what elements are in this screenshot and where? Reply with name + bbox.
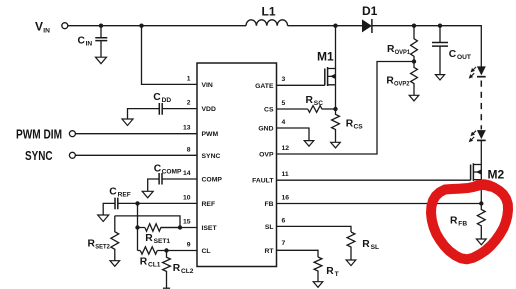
svg-text:VDD: VDD (202, 106, 216, 113)
node junction CS / M1 source (333, 107, 337, 111)
svg-text:1: 1 (187, 75, 191, 82)
wire LED D3 to M2 drain (480, 140, 482, 164)
svg-text:15: 15 (183, 219, 191, 226)
svg-text:14: 14 (183, 170, 191, 177)
ground RSET2 (110, 261, 120, 267)
resistor RSET1 (145, 224, 180, 245)
svg-text:COMP: COMP (202, 177, 223, 184)
LED D2 top (469, 66, 486, 78)
wire pin5 CS left segment (277, 108, 308, 110)
svg-text:OVP1: OVP1 (395, 49, 411, 56)
svg-text:OVP: OVP (259, 152, 274, 159)
svg-text:11: 11 (282, 171, 289, 178)
svg-text:FB: FB (264, 201, 273, 208)
wire pin7 RT (277, 250, 319, 257)
svg-text:5: 5 (282, 100, 286, 107)
resistor ROVP2 (386, 62, 417, 96)
capacitor COUT (432, 26, 471, 75)
resistor RSL (347, 232, 379, 260)
node PWM DIM input terminal (16, 126, 75, 141)
svg-text:R: R (173, 263, 181, 274)
wire pin2 VDD segment (162, 108, 197, 110)
svg-text:D1: D1 (362, 4, 378, 18)
svg-text:IN: IN (86, 41, 93, 48)
svg-text:12: 12 (282, 145, 290, 152)
capacitor CCOMP (148, 164, 182, 192)
diode D1 (362, 4, 378, 33)
resistor RCS (332, 109, 364, 142)
svg-text:SET1: SET1 (154, 238, 171, 245)
transistor M2 (471, 163, 505, 181)
wire pin9 CL segments (138, 250, 198, 252)
wire pin11 FAULT to M2 gate (277, 179, 471, 181)
wire pin14 COMP segment (162, 178, 197, 180)
wire pin10 REF segment (118, 202, 197, 204)
svg-text:RT: RT (264, 248, 274, 255)
ground RFB (476, 239, 486, 245)
svg-text:PWM: PWM (202, 131, 219, 138)
svg-text:4: 4 (282, 119, 286, 126)
svg-text:SL: SL (371, 244, 379, 251)
svg-text:FB: FB (458, 220, 467, 227)
wire pin1 VIN branch (142, 26, 198, 85)
ground CREF (98, 215, 109, 222)
svg-text:10: 10 (183, 194, 191, 201)
svg-text:OVP2: OVP2 (394, 80, 410, 87)
svg-text:R: R (88, 238, 96, 249)
svg-text:16: 16 (282, 195, 290, 202)
capacitor CDD (128, 92, 172, 119)
node junction COUT tap (438, 24, 442, 28)
resistor RSC (306, 95, 324, 113)
wire pin13 PWM (75, 133, 197, 135)
svg-text:V: V (35, 19, 43, 33)
wire M1 source down to CS node (335, 85, 337, 109)
svg-text:3: 3 (282, 76, 286, 83)
node junction ISET left (135, 225, 139, 229)
svg-text:M1: M1 (317, 50, 334, 64)
svg-text:M2: M2 (488, 168, 505, 182)
svg-text:C: C (449, 49, 457, 60)
node VIN input terminal (35, 19, 68, 34)
LED D3 bottom (469, 130, 486, 142)
svg-text:C: C (154, 164, 162, 175)
svg-text:8: 8 (187, 146, 191, 153)
wire pin12 OVP to divider (277, 62, 415, 155)
svg-text:L1: L1 (262, 5, 276, 19)
svg-text:GND: GND (258, 126, 273, 133)
svg-text:SYNC: SYNC (25, 148, 53, 163)
node junction REF tap (135, 201, 139, 205)
svg-text:R: R (145, 233, 153, 244)
svg-text:7: 7 (282, 240, 286, 247)
resistor RSET2 (88, 216, 119, 261)
IC U1 body (197, 63, 277, 267)
ground CDD (122, 119, 133, 126)
wire dashed LED string (480, 81, 482, 130)
wire M2 source to FB node (480, 180, 482, 204)
svg-text:CL: CL (202, 248, 211, 255)
svg-text:SET2: SET2 (95, 243, 110, 250)
inductor L1 (246, 5, 288, 26)
svg-text:ISET: ISET (202, 225, 218, 232)
wire top rail: L1 to D1 anode (288, 25, 362, 27)
svg-text:13: 13 (183, 125, 191, 132)
svg-text:6: 6 (282, 217, 286, 224)
annotation red circle around RFB (431, 184, 508, 259)
node junction ROVP1/ROVP2 divider (412, 59, 416, 63)
ground CIN (96, 57, 107, 64)
svg-text:FAULT: FAULT (252, 178, 274, 185)
wire REF to ISET to CL vertical (137, 203, 139, 250)
svg-text:PWM DIM: PWM DIM (16, 126, 62, 141)
svg-text:COMP: COMP (162, 169, 182, 176)
svg-text:CL1: CL1 (148, 261, 161, 268)
svg-text:R: R (450, 215, 458, 226)
node junction CIN tap (99, 24, 103, 28)
capacitor CIN (78, 26, 108, 58)
wire pin8 SYNC (75, 154, 197, 156)
svg-text:R: R (306, 95, 314, 106)
svg-text:VIN: VIN (202, 82, 213, 89)
wire RSET2 branch (115, 216, 180, 228)
ground RCS (331, 142, 341, 148)
ground pin4 (304, 141, 314, 147)
ground ROVP2 (409, 95, 419, 101)
svg-text:IN: IN (43, 27, 50, 34)
wire RSC to M1 source node (322, 108, 336, 110)
wire top rail: D1 cathode to top-right corner, down to LED string (372, 26, 481, 67)
svg-text:GATE: GATE (255, 83, 274, 90)
svg-text:DD: DD (162, 97, 172, 104)
ground COUT (435, 75, 444, 80)
node junction ROVP1 tap (412, 24, 416, 28)
resistor RT (314, 257, 339, 282)
svg-text:CS: CS (354, 123, 364, 130)
wire pin16 FB to RFB (277, 203, 482, 205)
wire pin3 GATE to M1 gate (277, 84, 325, 86)
ground RCL2 partial at bottom edge (163, 287, 170, 289)
node junction CL / RCL2 (164, 248, 168, 252)
svg-text:SYNC: SYNC (202, 153, 221, 160)
wire pin15 ISET segments (138, 227, 198, 229)
wire top rail: VIN terminal to L1 (68, 25, 246, 27)
ground RSL (346, 260, 356, 266)
svg-text:R: R (326, 266, 334, 277)
node junction ISET right (178, 225, 182, 229)
node junction FB / RFB (479, 201, 483, 205)
svg-text:OUT: OUT (457, 54, 471, 61)
ground RT (313, 282, 323, 288)
svg-text:C: C (153, 92, 161, 103)
svg-text:R: R (362, 239, 370, 250)
ground CCOMP (142, 191, 153, 198)
svg-text:CS: CS (264, 107, 274, 114)
node SYNC input terminal (25, 148, 75, 163)
svg-text:SC: SC (314, 100, 323, 107)
svg-text:REF: REF (202, 201, 216, 208)
capacitor CREF (103, 186, 131, 215)
svg-text:C: C (109, 186, 117, 197)
svg-text:T: T (335, 271, 339, 278)
transistor M1 (317, 26, 336, 86)
svg-text:9: 9 (187, 242, 191, 249)
resistor RCL1 (140, 247, 161, 268)
svg-text:R: R (140, 256, 148, 267)
svg-text:CL2: CL2 (181, 268, 194, 275)
svg-text:REF: REF (118, 191, 131, 198)
svg-text:C: C (78, 36, 86, 47)
node junction VIN pin tap (139, 24, 143, 28)
wire pin4 GND (277, 128, 310, 141)
node junction M1 drain tap (333, 24, 337, 28)
resistor ROVP1 (387, 26, 417, 62)
svg-text:2: 2 (187, 100, 191, 107)
wire pin6 SL (277, 226, 352, 232)
resistor RFB (450, 204, 485, 240)
resistor RCL2 (163, 251, 194, 289)
svg-text:SL: SL (265, 224, 274, 231)
